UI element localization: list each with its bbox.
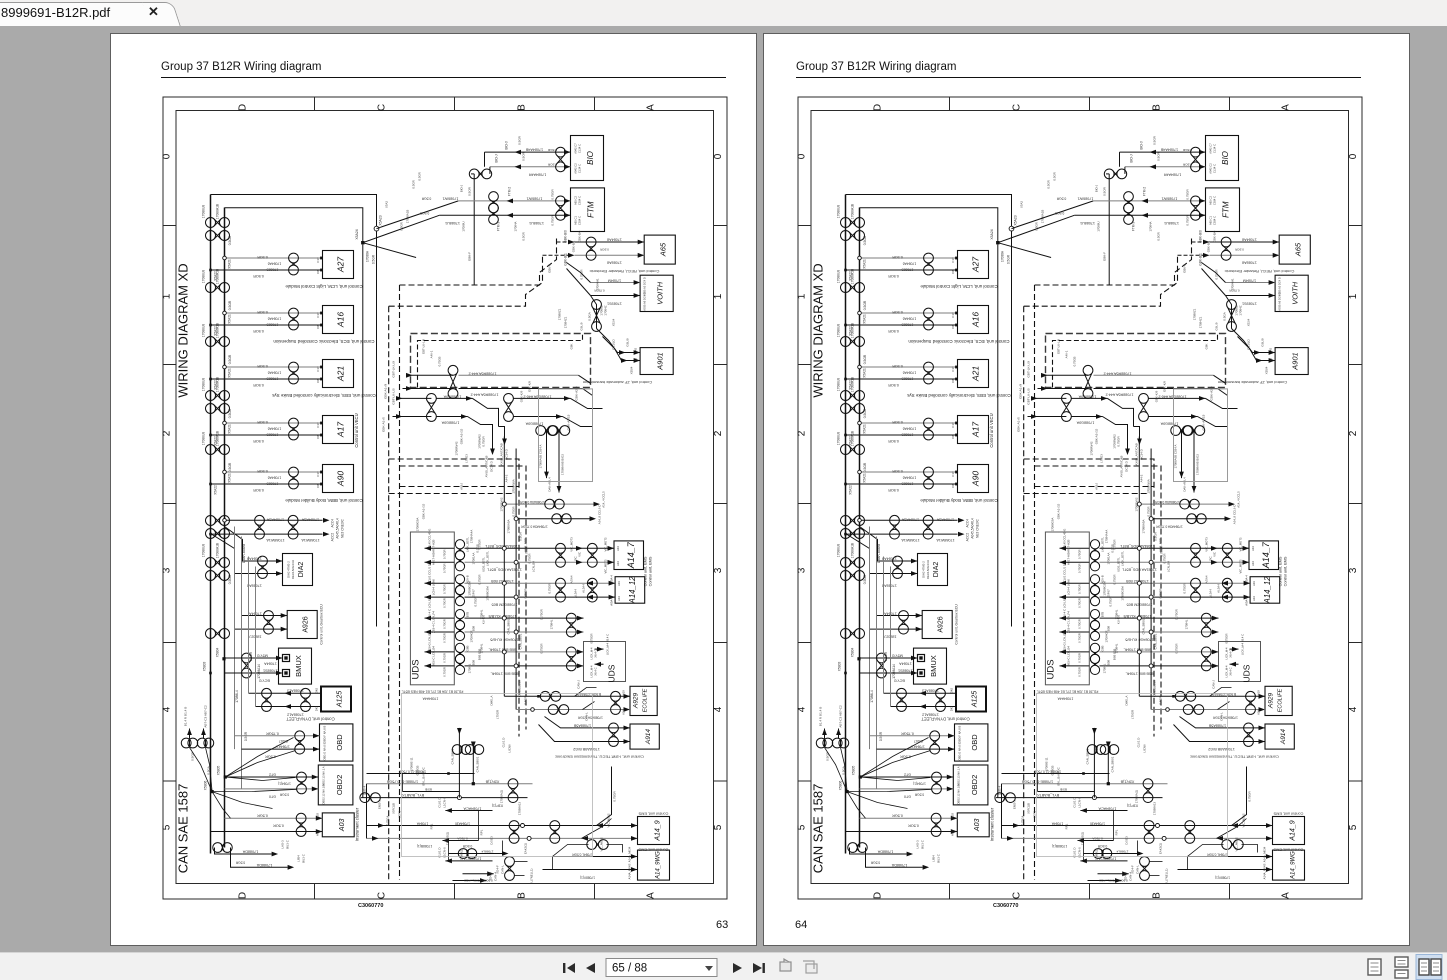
- PDF viewer tab bar: [0, 0, 1447, 26]
- wiring diagram sheet: [162, 96, 729, 900]
- page title: [796, 61, 956, 73]
- title underline: [161, 77, 726, 78]
- hidden schematic definition: [0, 0, 1, 1]
- last page button: [753, 963, 765, 973]
- page number combo box: [606, 959, 717, 977]
- continuous layout icon: [1395, 957, 1408, 978]
- page number: [716, 919, 728, 931]
- page title: [161, 61, 321, 73]
- page number: [795, 919, 807, 931]
- page sheet 63: [110, 33, 757, 946]
- page sheet 64: [763, 33, 1410, 946]
- next view icon: [803, 961, 817, 973]
- next page button: [733, 963, 742, 973]
- first page button: [563, 963, 575, 973]
- previous page button: [586, 963, 595, 973]
- drawing number C3060770: [358, 903, 383, 909]
- wiring diagram sheet: [797, 96, 1364, 900]
- svg-text:65 / 88: 65 / 88: [612, 963, 647, 975]
- two-page layout icon (selected): [1416, 955, 1442, 980]
- bottom toolbar: [0, 952, 1447, 980]
- previous view icon: [780, 959, 791, 971]
- drawing number C3060770: [993, 903, 1018, 909]
- title underline: [796, 77, 1361, 78]
- single page layout icon: [1368, 959, 1381, 975]
